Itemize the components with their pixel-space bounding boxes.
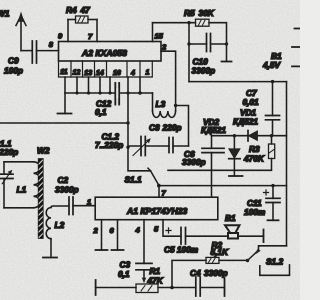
pin strip of A2 with pin numbers 11 12 13 14 16 4 1	[59, 61, 153, 77]
wire R2 to switch	[219, 259, 248, 261]
capacitor C6	[211, 136, 213, 198]
capacitor C12 in bus	[115, 83, 119, 105]
capacitor C2	[69, 197, 73, 215]
pin stubs to bus	[65, 77, 140, 93]
switch S1.1	[151, 171, 159, 185]
wire R4 to pin 7	[88, 19, 97, 21]
power rail right side	[286, 82, 288, 246]
detector wire	[212, 135, 287, 137]
R2 branch wire	[172, 260, 206, 287]
junction dot VD2 top	[233, 134, 236, 137]
potentiometer R1	[136, 284, 158, 293]
wire L2 to C2	[51, 206, 69, 208]
junction dot C10 right	[225, 42, 228, 45]
node A junction dot	[187, 21, 190, 24]
junction dot L3 top	[174, 104, 177, 107]
capacitor C8	[169, 138, 173, 153]
capacitor C4	[196, 277, 200, 296]
tank circuit top wire	[4, 161, 34, 163]
junction dot VD1 right	[270, 134, 273, 137]
wire C9 to pin8	[37, 50, 59, 52]
ferrite rod W2	[38, 159, 43, 239]
antenna W1	[16, 13, 26, 51]
plus sign C5	[166, 228, 171, 233]
capacitor C9	[32, 41, 36, 63]
tuning row wire	[128, 145, 189, 147]
capacitor C10	[189, 43, 227, 45]
audio wire to rail	[159, 185, 287, 187]
wire B1 to terminal	[238, 235, 264, 237]
pin 9 stub	[67, 20, 69, 42]
A1 pin 4 wire down	[143, 220, 145, 278]
resistor R4	[76, 16, 89, 23]
wire C5 to B1	[186, 235, 229, 237]
A1 pin 6 ground	[117, 220, 119, 250]
capacitor C5	[181, 228, 186, 245]
resistor R3	[271, 136, 273, 144]
variable capacitor C1.1	[3, 162, 5, 208]
left long wire	[0, 122, 128, 124]
pin 15 stub	[152, 23, 154, 42]
A1 pin 2 ground	[101, 220, 103, 250]
pin 7 stub	[96, 20, 98, 42]
junction dot R2 branch	[170, 286, 174, 290]
right terminal bar	[224, 278, 226, 296]
wire L3 node to C8 row	[176, 106, 189, 147]
capacitor C7	[272, 82, 274, 136]
capacitor C3	[136, 263, 152, 269]
A2 ground bus	[65, 92, 153, 94]
ground bar below C10 right	[222, 61, 232, 63]
variable capacitor C1.2	[141, 137, 145, 156]
junction dots on bus	[75, 91, 78, 94]
wire to R4	[68, 19, 76, 21]
R3 dogleg wire to S1.1 throw	[168, 159, 272, 171]
A2 pin 2 wire	[161, 51, 176, 105]
junction dot C10 left	[187, 42, 190, 45]
dogleg to S1.1 contact	[128, 147, 151, 171]
inductor L1	[34, 162, 41, 208]
IC A1 KR174UN23 body	[95, 197, 218, 220]
tank bottom wire	[4, 207, 34, 209]
A1 pin 5 wire	[163, 220, 181, 237]
terminal bar	[263, 230, 265, 243]
wiper arrow onto R1	[142, 278, 146, 284]
left terminal bar	[95, 280, 97, 295]
node A vertical wire	[188, 23, 190, 82]
wire antenna to C9	[21, 50, 32, 52]
inductor L3	[152, 93, 154, 111]
op-amp/IC A2 KXA058 body	[59, 42, 162, 62]
capacitor C11	[272, 186, 274, 221]
battery B1 plates	[292, 29, 300, 67]
diode VD2	[229, 136, 240, 176]
earphone B1	[225, 225, 240, 238]
switch S1.2	[246, 259, 249, 262]
resistor R2	[206, 257, 219, 263]
inductor L2	[46, 208, 51, 239]
junction dot C11 top	[271, 184, 274, 187]
supply wire to rail	[189, 81, 287, 83]
wire C2 to A1 pin 1	[73, 205, 95, 207]
bottom bus	[96, 287, 225, 289]
ground of A2	[64, 93, 66, 114]
A1 pin 7 stub	[158, 186, 160, 198]
diode VD1	[248, 131, 258, 142]
resistor R5	[196, 19, 210, 26]
wire pin15 to R5	[153, 22, 196, 24]
long vertical from pin strip through bus	[127, 77, 129, 147]
ground bar VD2	[229, 175, 243, 177]
wire R5 to corner	[209, 23, 227, 62]
switch section bracket	[260, 265, 290, 275]
